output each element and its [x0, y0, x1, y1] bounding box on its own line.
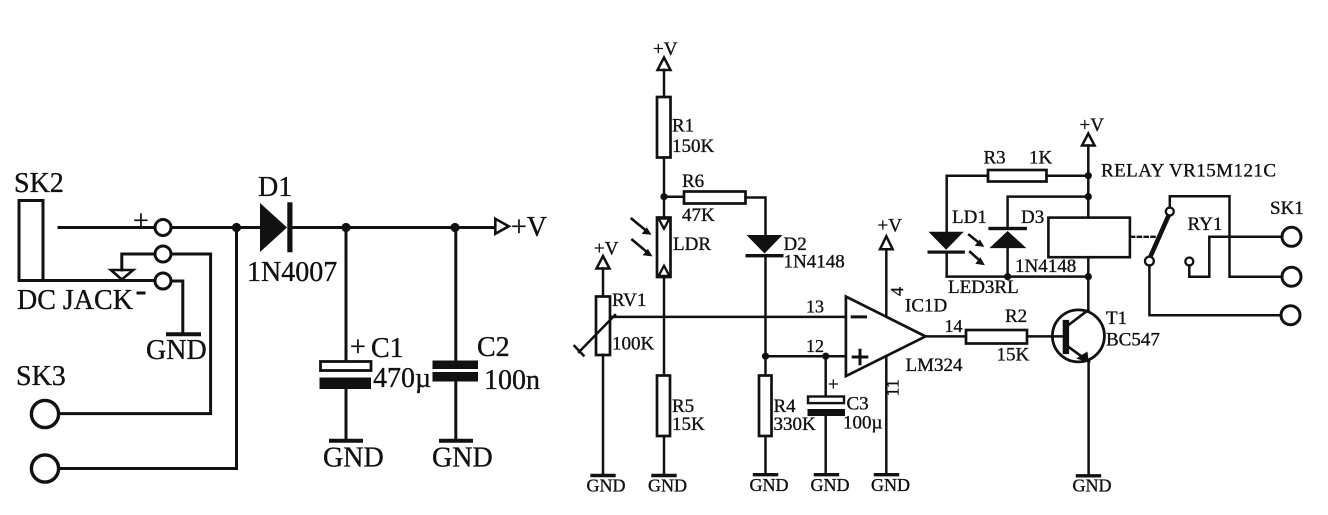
svg-text:11: 11 — [883, 379, 903, 396]
wire pin13 net — [612, 316, 846, 319]
resistor R2 — [966, 330, 1027, 344]
svg-text:R6: R6 — [682, 171, 704, 192]
ground (T1) — [1078, 474, 1100, 477]
op-amp IC1D — [846, 297, 926, 377]
wire LDR to R5 (crosses pin13 line) — [663, 277, 666, 376]
wire LD1 to bottom rail — [945, 254, 948, 277]
wire arm to SK1 middle — [1170, 196, 1282, 277]
terminal SK1 pin2 — [1282, 267, 1301, 286]
svg-text:GND: GND — [871, 475, 910, 495]
wire node to R6 — [664, 195, 684, 198]
relay switch arm — [1150, 216, 1169, 258]
LDR light arrow 1 — [632, 219, 645, 230]
node R3/+V — [1085, 172, 1092, 179]
wire plus to D1 — [171, 226, 260, 229]
svg-text:LDR: LDR — [673, 234, 711, 255]
switch contact bottom — [1145, 257, 1154, 266]
svg-text:SK2: SK2 — [14, 168, 64, 199]
terminal SK3 pin1 — [31, 400, 58, 427]
svg-text:1K: 1K — [1029, 148, 1053, 169]
ground arrow into jack — [111, 270, 133, 280]
svg-text:100µ: 100µ — [843, 412, 883, 433]
ground (RV1) — [592, 474, 614, 477]
node C1 — [341, 223, 350, 232]
wire relay coil to collector node — [1087, 257, 1090, 276]
svg-text:LM324: LM324 — [906, 355, 964, 376]
wire SK3 pin2 to plus node — [59, 228, 237, 469]
svg-text:GND: GND — [750, 475, 789, 495]
resistor R5 — [657, 376, 670, 437]
minus polarity mark — [137, 292, 146, 295]
svg-text:47K: 47K — [682, 205, 715, 226]
svg-text:12: 12 — [806, 336, 824, 356]
wire center pin — [59, 226, 155, 229]
DC jack body — [19, 201, 43, 281]
resistor R6 — [684, 192, 746, 204]
diode D2 — [747, 235, 783, 254]
svg-text:+V: +V — [1080, 115, 1105, 136]
svg-text:RELAY VR15M121C: RELAY VR15M121C — [1101, 161, 1277, 182]
wire R6 to D2 — [746, 198, 766, 236]
wire bottom contact to SK1 bottom — [1149, 266, 1281, 316]
wire +V to RV1 — [602, 269, 605, 297]
wire R3 right to +V rail — [1047, 174, 1089, 177]
switch contact top — [1166, 208, 1174, 216]
svg-text:+: + — [828, 375, 839, 396]
node rail/collector — [1085, 273, 1092, 280]
wire D1 to C1 node — [293, 226, 347, 229]
svg-text:R3: R3 — [984, 148, 1006, 169]
resistor R3 — [988, 170, 1047, 182]
wire +V to relay coil — [1087, 146, 1090, 218]
svg-text:+V: +V — [511, 212, 547, 243]
ground (C1) — [331, 439, 361, 443]
terminal SK3 pin2 — [31, 455, 58, 482]
svg-text:150K: 150K — [672, 136, 715, 157]
wire T1 emitter to GND — [1087, 362, 1090, 476]
svg-text:GND: GND — [811, 475, 850, 495]
svg-text:LED3RL: LED3RL — [948, 277, 1019, 298]
svg-text:15K: 15K — [997, 345, 1030, 366]
resistor R1 — [657, 97, 671, 158]
wire middle pin with ground arrow — [122, 254, 155, 270]
diode D3 — [1008, 197, 1089, 227]
svg-text:GND: GND — [1073, 476, 1112, 496]
wire R5 to GND — [663, 436, 666, 475]
svg-text:470µ: 470µ — [373, 363, 431, 394]
svg-text:100K: 100K — [612, 334, 655, 355]
node C2 — [450, 223, 459, 232]
svg-text:IC1D: IC1D — [905, 296, 947, 317]
wire D2 to R4 — [764, 257, 767, 375]
wire R3 left to LD1 — [947, 176, 988, 232]
node pin12/D2 — [762, 353, 769, 360]
svg-text:+V: +V — [653, 39, 678, 60]
svg-text:4: 4 — [887, 287, 907, 296]
svg-text:C1: C1 — [371, 333, 404, 364]
terminal SK1 pin3 — [1281, 306, 1300, 325]
jack terminal sleeve — [155, 273, 171, 289]
svg-text:GND: GND — [432, 443, 493, 474]
wire pin12 net — [766, 355, 846, 358]
wire pin 11 — [885, 356, 888, 475]
svg-text:+V: +V — [594, 239, 619, 260]
svg-text:SK3: SK3 — [16, 361, 66, 392]
svg-text:13: 13 — [806, 296, 824, 316]
svg-text:R2: R2 — [1005, 306, 1027, 327]
svg-text:+: + — [133, 206, 149, 237]
capacitor C2 — [454, 228, 457, 361]
wire middle to SK3 top — [59, 254, 211, 414]
svg-text:C2: C2 — [477, 332, 510, 363]
svg-text:D3: D3 — [1021, 207, 1044, 228]
wire R1 to LDR — [663, 158, 666, 218]
dashed mechanical link — [1131, 236, 1155, 238]
+V power arrow (left rail) — [495, 219, 508, 234]
wire sleeve to GND — [171, 281, 183, 333]
LDR — [657, 218, 671, 278]
wire LED bottom rail — [947, 275, 1089, 278]
svg-text:T1: T1 — [1106, 308, 1127, 329]
wire C1 node to C2 node — [346, 226, 454, 229]
jack terminal plus — [155, 220, 171, 236]
svg-text:R1: R1 — [672, 116, 694, 137]
ground (C3) — [816, 473, 838, 476]
ground (C2) — [441, 439, 471, 443]
svg-text:14: 14 — [945, 316, 963, 336]
svg-text:LD1: LD1 — [952, 207, 987, 228]
preset RV1 — [596, 297, 610, 356]
node junction jack/SK3 — [232, 223, 241, 232]
svg-text:+V: +V — [878, 216, 903, 237]
svg-text:100n: 100n — [484, 365, 540, 396]
node pin12/C3 — [822, 353, 829, 360]
ground (jack) — [168, 332, 199, 336]
svg-text:SK1: SK1 — [1270, 198, 1304, 219]
wire R2 to T1 base — [1027, 335, 1063, 338]
relay coil — [1048, 218, 1130, 258]
wire NC to SK1 top — [1189, 237, 1282, 277]
svg-text:DC JACK: DC JACK — [17, 285, 133, 316]
wire +V to R1 — [663, 70, 666, 97]
wire jack sleeve line — [19, 279, 155, 282]
svg-text:1N4148: 1N4148 — [784, 252, 845, 273]
svg-text:GND: GND — [323, 443, 384, 474]
switch contact NC — [1185, 258, 1193, 266]
node D3 bottom — [1004, 273, 1011, 280]
svg-text:D1: D1 — [258, 172, 292, 203]
LED light arrow 1 — [969, 235, 978, 242]
svg-text:1N4148: 1N4148 — [1015, 256, 1076, 277]
LDR light arrow 2 — [632, 240, 645, 251]
ground (pin 11) — [876, 473, 898, 476]
diode D1 — [260, 203, 287, 252]
LED LD1 — [929, 232, 964, 250]
capacitor C1 — [345, 228, 348, 362]
resistor R4 — [759, 376, 772, 437]
wire T1 collector up — [1087, 277, 1090, 310]
svg-text:RV1: RV1 — [612, 290, 646, 311]
svg-text:GND: GND — [146, 335, 207, 366]
wire pin 4 — [885, 249, 888, 316]
ground (R5) — [653, 474, 675, 477]
node R1/R6/LDR — [660, 193, 667, 200]
capacitor C3 — [824, 356, 827, 396]
svg-text:RY1: RY1 — [1188, 214, 1223, 235]
transistor T1 — [1052, 310, 1104, 362]
svg-text:1N4007: 1N4007 — [247, 257, 337, 288]
node D3/+V — [1085, 193, 1092, 200]
svg-text:+: + — [350, 332, 366, 363]
LED light arrow 2 — [970, 252, 978, 260]
svg-text:GND: GND — [587, 476, 626, 496]
wire output pin 14 — [926, 335, 967, 338]
jack terminal middle — [155, 246, 171, 262]
ground (R4) — [755, 473, 777, 476]
svg-text:15K: 15K — [672, 414, 705, 435]
wire RV1 to GND — [602, 355, 605, 475]
wire R4 to GND — [764, 436, 767, 475]
terminal SK1 pin1 — [1282, 227, 1301, 246]
svg-text:330K: 330K — [774, 414, 817, 435]
svg-text:BC547: BC547 — [1106, 330, 1160, 351]
svg-text:GND: GND — [648, 476, 687, 496]
wire C2 node to +V — [455, 226, 495, 229]
